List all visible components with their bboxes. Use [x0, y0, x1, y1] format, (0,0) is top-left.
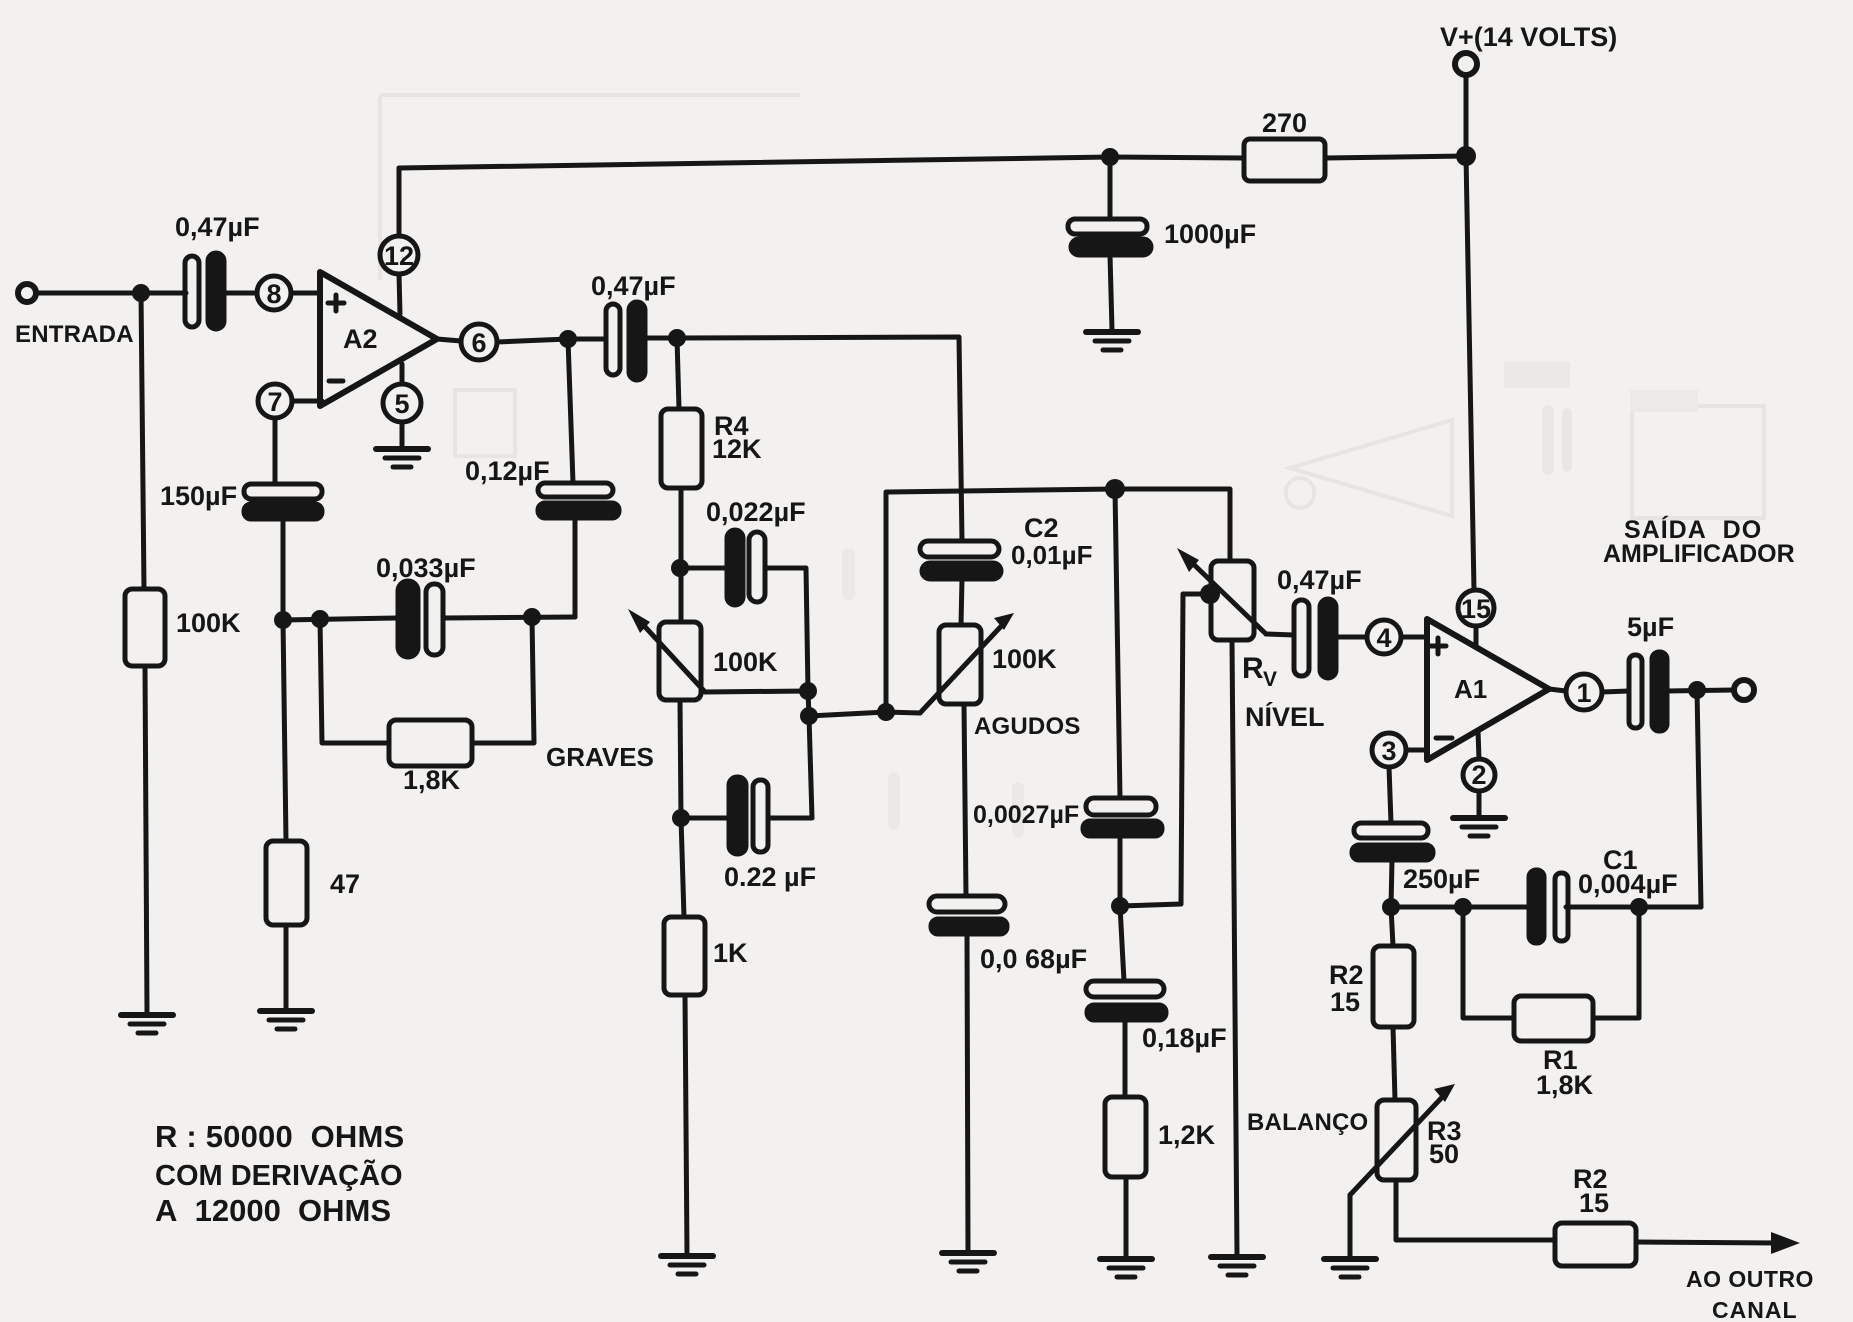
pin 8	[257, 276, 291, 310]
wire 0,033uF to 0,12uF leg	[443, 617, 575, 618]
resistor R1 1,8K	[1514, 996, 1593, 1041]
svg-text:15: 15	[1579, 1188, 1609, 1218]
wire pin1 to 5uF	[1602, 691, 1629, 692]
pin 7	[258, 384, 292, 418]
wire 270 to V+ node	[1325, 156, 1466, 158]
capacitor 1000uF	[1068, 219, 1147, 234]
svg-text:5: 5	[394, 389, 409, 419]
svg-text:270: 270	[1262, 108, 1307, 138]
svg-text:V+(14 VOLTS): V+(14 VOLTS)	[1440, 22, 1617, 52]
resistor 47	[266, 841, 307, 925]
wire top supply rail	[399, 157, 1244, 168]
capacitor 5uF	[1629, 655, 1642, 728]
node balance bus	[1111, 897, 1129, 915]
capacitor 0,47uF second	[606, 304, 620, 375]
wire R3 bottom to output R2	[1396, 1180, 1555, 1240]
wire cap to pin 4	[1336, 635, 1367, 640]
ground (0,068uF)	[942, 1253, 994, 1271]
wire output down to feedback bus	[1697, 690, 1701, 907]
ground (nivel)	[1211, 1257, 1263, 1275]
potentiometer GRAVES 100K	[659, 622, 701, 700]
node R1 left top	[1454, 898, 1472, 916]
op-amp A1	[1427, 619, 1549, 760]
wire agudos wiper lead	[886, 712, 920, 713]
wire 0,022uF loop to wiper node	[765, 568, 808, 691]
svg-text:1,2K: 1,2K	[1158, 1120, 1216, 1150]
ground (R3 wiper)	[1324, 1259, 1376, 1277]
node output	[1688, 681, 1706, 699]
wire node down to 47	[283, 620, 286, 841]
wire R1 loop right	[1593, 907, 1639, 1018]
wire nivel bottom to ground	[1232, 640, 1237, 1255]
node 1,8K left	[311, 610, 329, 628]
node feedback junction	[274, 611, 292, 629]
pin 6	[461, 324, 497, 360]
svg-text:0,47µF: 0,47µF	[1277, 565, 1362, 595]
svg-text:0,0027µF: 0,0027µF	[973, 801, 1079, 829]
ground (1K)	[661, 1256, 713, 1274]
wire pin7 to A2	[292, 399, 322, 404]
ground (input 100K)	[121, 1015, 173, 1033]
ground (1000uF)	[1086, 332, 1138, 350]
resistor R2 15	[1373, 946, 1414, 1027]
svg-text:50: 50	[1429, 1139, 1459, 1169]
wire triangle to pin2	[1478, 731, 1479, 759]
node below 0,12uF tap	[559, 330, 577, 348]
svg-text:CANAL: CANAL	[1712, 1297, 1798, 1322]
svg-text:ENTRADA: ENTRADA	[15, 321, 134, 348]
wire 1000uF drop	[1108, 157, 1113, 219]
svg-text:0,022µF: 0,022µF	[706, 497, 806, 527]
wire pin3 down to 250uF	[1389, 767, 1391, 823]
capacitor 150uF	[244, 484, 322, 499]
svg-text:15: 15	[1330, 987, 1360, 1017]
node 1,8K right	[523, 608, 541, 626]
svg-text:0,033µF: 0,033µF	[376, 553, 476, 583]
svg-text:A 12000 OHMS: A 12000 OHMS	[155, 1193, 391, 1228]
svg-text:0,004µF: 0,004µF	[1578, 869, 1678, 899]
wire node to nivel wiper riser	[1120, 904, 1181, 906]
svg-text:1,8K: 1,8K	[1536, 1070, 1594, 1100]
svg-text:0,12µF: 0,12µF	[465, 456, 550, 486]
ground (47)	[260, 1011, 312, 1029]
capacitor 0,033uF	[398, 581, 418, 657]
wire A2 apex to pin6	[437, 339, 461, 341]
pin 5	[383, 384, 421, 422]
svg-text:0,18µF: 0,18µF	[1142, 1023, 1227, 1053]
wire triangle to pin5	[400, 364, 405, 384]
node 1000uF tap	[1101, 148, 1119, 166]
svg-text:12K: 12K	[712, 434, 762, 464]
wire C2 to agudos top	[961, 579, 962, 625]
resistor 100K (input)	[125, 589, 165, 666]
wire pin7 down to 150uF	[273, 418, 278, 484]
svg-text:7: 7	[267, 387, 282, 417]
wire nivel to 0,47uF	[1266, 634, 1294, 635]
node 0,022uF left	[671, 559, 689, 577]
wire 0,12uF to bass bus	[573, 518, 578, 617]
svg-text:0,47µF: 0,47µF	[591, 271, 676, 301]
svg-text:1K: 1K	[713, 938, 748, 968]
wire pin12 to triangle	[399, 274, 400, 314]
svg-text:A1: A1	[1454, 674, 1487, 704]
wire nivel wiper lead	[1183, 592, 1210, 597]
wire R3 wiper to ground	[1348, 1195, 1353, 1257]
svg-text:AGUDOS: AGUDOS	[974, 713, 1081, 740]
pin 3	[1372, 733, 1406, 767]
resistor 1,8K	[389, 720, 472, 766]
svg-text:0,01µF: 0,01µF	[1011, 540, 1092, 570]
wire 1,2K to ground	[1124, 1177, 1129, 1257]
capacitor 0,068uF	[929, 896, 1005, 912]
wire pin2 to ground	[1477, 791, 1482, 816]
terminal output	[1734, 680, 1754, 700]
wire junction to cap 0,47uF	[568, 337, 606, 342]
svg-text:V: V	[1263, 668, 1277, 691]
svg-text:C2: C2	[1024, 513, 1059, 543]
wire 1,8K loop	[320, 619, 389, 743]
svg-text:100K: 100K	[992, 644, 1057, 674]
node R1 right top	[1630, 898, 1648, 916]
input terminal ENTRADA	[18, 284, 36, 302]
svg-text:12: 12	[384, 241, 414, 271]
svg-text:AMPLIFICADOR: AMPLIFICADOR	[1603, 540, 1795, 568]
wire wiper node down	[808, 691, 809, 716]
capacitor 0,0027uF	[1086, 798, 1156, 815]
potentiometer RV NIVEL	[1211, 561, 1254, 640]
svg-text:150µF: 150µF	[160, 481, 237, 511]
wire input to junction	[36, 291, 186, 296]
potentiometer AGUDOS 100K	[939, 625, 981, 704]
node R4 top	[668, 329, 686, 347]
svg-text:5µF: 5µF	[1627, 612, 1674, 642]
wire R4 to graves pot	[679, 488, 684, 622]
terminal V+	[1455, 53, 1477, 75]
wire node to 0,022uF	[680, 566, 727, 571]
svg-text:4: 4	[1376, 623, 1391, 653]
wire 250uF to feedback bus	[1391, 860, 1392, 907]
node wiper bus left	[800, 707, 818, 725]
wire 0,18uF to 1,2K	[1123, 1020, 1128, 1097]
node agudos wiper	[877, 703, 895, 721]
wire pin12 up to top rail	[397, 168, 402, 236]
wire 0,0027uF drop	[1115, 489, 1120, 798]
svg-text:AO OUTRO: AO OUTRO	[1686, 1266, 1814, 1292]
resistor 270	[1244, 139, 1325, 181]
wire graves pot bottom	[680, 700, 681, 818]
wire apex to pin1	[1549, 689, 1566, 691]
wire junction down to 100K	[141, 293, 144, 589]
node junction input	[132, 284, 150, 302]
node nivel wiper	[1200, 584, 1220, 604]
resistor 1,2K	[1105, 1097, 1146, 1177]
svg-text:COM DERIVAÇÃO: COM DERIVAÇÃO	[155, 1158, 403, 1192]
resistor R2 15 output	[1555, 1223, 1636, 1266]
svg-text:1: 1	[1576, 678, 1591, 708]
wire 5uF to output	[1667, 690, 1734, 691]
wire R4 down	[677, 338, 679, 409]
wire pin6 to junction	[497, 339, 568, 342]
capacitor C2 0,01uF	[920, 541, 999, 557]
capacitor 0,47uF third	[1294, 600, 1309, 676]
node 0,0027uF top	[1105, 479, 1125, 499]
wire 1000uF to ground	[1110, 255, 1112, 330]
wire 0,068uF to ground	[967, 934, 968, 1251]
svg-text:BALANÇO: BALANÇO	[1247, 1109, 1368, 1136]
wire graves bottom to 1K	[681, 818, 684, 917]
capacitor C1 0,004uF	[1529, 870, 1544, 943]
svg-text:GRAVES: GRAVES	[546, 742, 654, 772]
svg-text:47: 47	[330, 869, 360, 899]
wire cap to pin 8	[224, 291, 257, 296]
svg-text:R: R	[1242, 652, 1264, 685]
wire pin8 to A2	[291, 291, 320, 296]
wire 1K to ground	[685, 995, 687, 1254]
wire to other channel	[1636, 1242, 1782, 1243]
wire pin15 to triangle	[1474, 626, 1479, 647]
svg-text:15: 15	[1461, 594, 1491, 624]
ground (pin 2)	[1453, 818, 1505, 836]
capacitor 0,18uF	[1086, 981, 1164, 997]
svg-text:1000µF: 1000µF	[1164, 219, 1256, 249]
pin 15	[1458, 590, 1494, 626]
node 0,22uF left	[672, 809, 690, 827]
svg-text:8: 8	[266, 279, 281, 309]
wire 0,0027uF to node	[1118, 836, 1123, 906]
wire V+ terminal down	[1464, 75, 1469, 156]
pin 12	[380, 236, 418, 274]
ground (1,2K)	[1100, 1259, 1152, 1277]
svg-text:R : 50000 OHMS: R : 50000 OHMS	[155, 1119, 404, 1154]
svg-text:2: 2	[1471, 760, 1486, 790]
svg-text:R2: R2	[1329, 960, 1364, 990]
wire node to 0,22uF	[681, 816, 729, 821]
ground (pin 5)	[376, 449, 428, 467]
wire signal to C2 drop	[677, 337, 962, 541]
wire nivel wiper riser down	[1181, 594, 1183, 904]
svg-text:100K: 100K	[176, 608, 241, 638]
wire 47 to ground	[284, 925, 289, 1009]
svg-text:0.22 µF: 0.22 µF	[724, 862, 816, 892]
wire graves wiper to node	[705, 691, 808, 692]
wire feedback bus	[1391, 905, 1529, 910]
wire 0,22uF up to wiper bus	[768, 716, 812, 818]
capacitor 0,47uF input	[185, 256, 199, 327]
wire 1,8K right loop	[472, 617, 534, 743]
svg-text:0,0 68µF: 0,0 68µF	[980, 944, 1087, 974]
svg-text:0,47µF: 0,47µF	[175, 212, 260, 242]
svg-text:250µF: 250µF	[1403, 864, 1480, 894]
wire 0,18uF drop	[1120, 906, 1124, 981]
op-amp A2	[320, 272, 437, 406]
capacitor 0,022uF	[727, 530, 743, 605]
svg-text:100K: 100K	[713, 647, 778, 677]
wire V+ rail to A1 pin15	[1466, 156, 1474, 590]
svg-text:6: 6	[471, 328, 486, 358]
potentiometer R3 50	[1377, 1100, 1416, 1180]
wire bus to R2	[1391, 907, 1393, 946]
wire pin3 to A1	[1406, 748, 1427, 753]
wire bass bus	[283, 618, 398, 620]
svg-text:3: 3	[1381, 736, 1396, 766]
capacitor 250uF	[1354, 823, 1428, 838]
wire wiper bus upper	[886, 489, 1230, 712]
node 250uF bottom	[1382, 898, 1400, 916]
svg-text:NÍVEL: NÍVEL	[1245, 701, 1325, 732]
wire to agudos wiper	[809, 712, 886, 716]
wire 100K to ground	[145, 666, 147, 1013]
resistor R4 12K	[661, 409, 702, 488]
wire R2 to R3	[1393, 1027, 1395, 1100]
wire 150uF down to node	[281, 519, 286, 620]
wire pin4 to A1	[1401, 635, 1427, 640]
pin 1	[1566, 674, 1602, 710]
wire 0,12uF tap down	[568, 339, 573, 483]
svg-text:A2: A2	[343, 324, 378, 354]
pin 4	[1367, 620, 1401, 654]
resistor 1K	[664, 917, 705, 995]
wire R1 loop left	[1463, 907, 1514, 1018]
wire cap to R4 node	[645, 336, 677, 341]
pin 2	[1463, 759, 1495, 791]
capacitor 0,12uF	[538, 483, 613, 497]
wire pin5 to ground	[400, 422, 405, 447]
node graves wiper	[799, 682, 817, 700]
svg-text:1,8K: 1,8K	[403, 765, 461, 795]
wire agudos bottom	[964, 704, 966, 896]
capacitor 0,22uF	[729, 777, 746, 854]
node V+	[1456, 146, 1476, 166]
